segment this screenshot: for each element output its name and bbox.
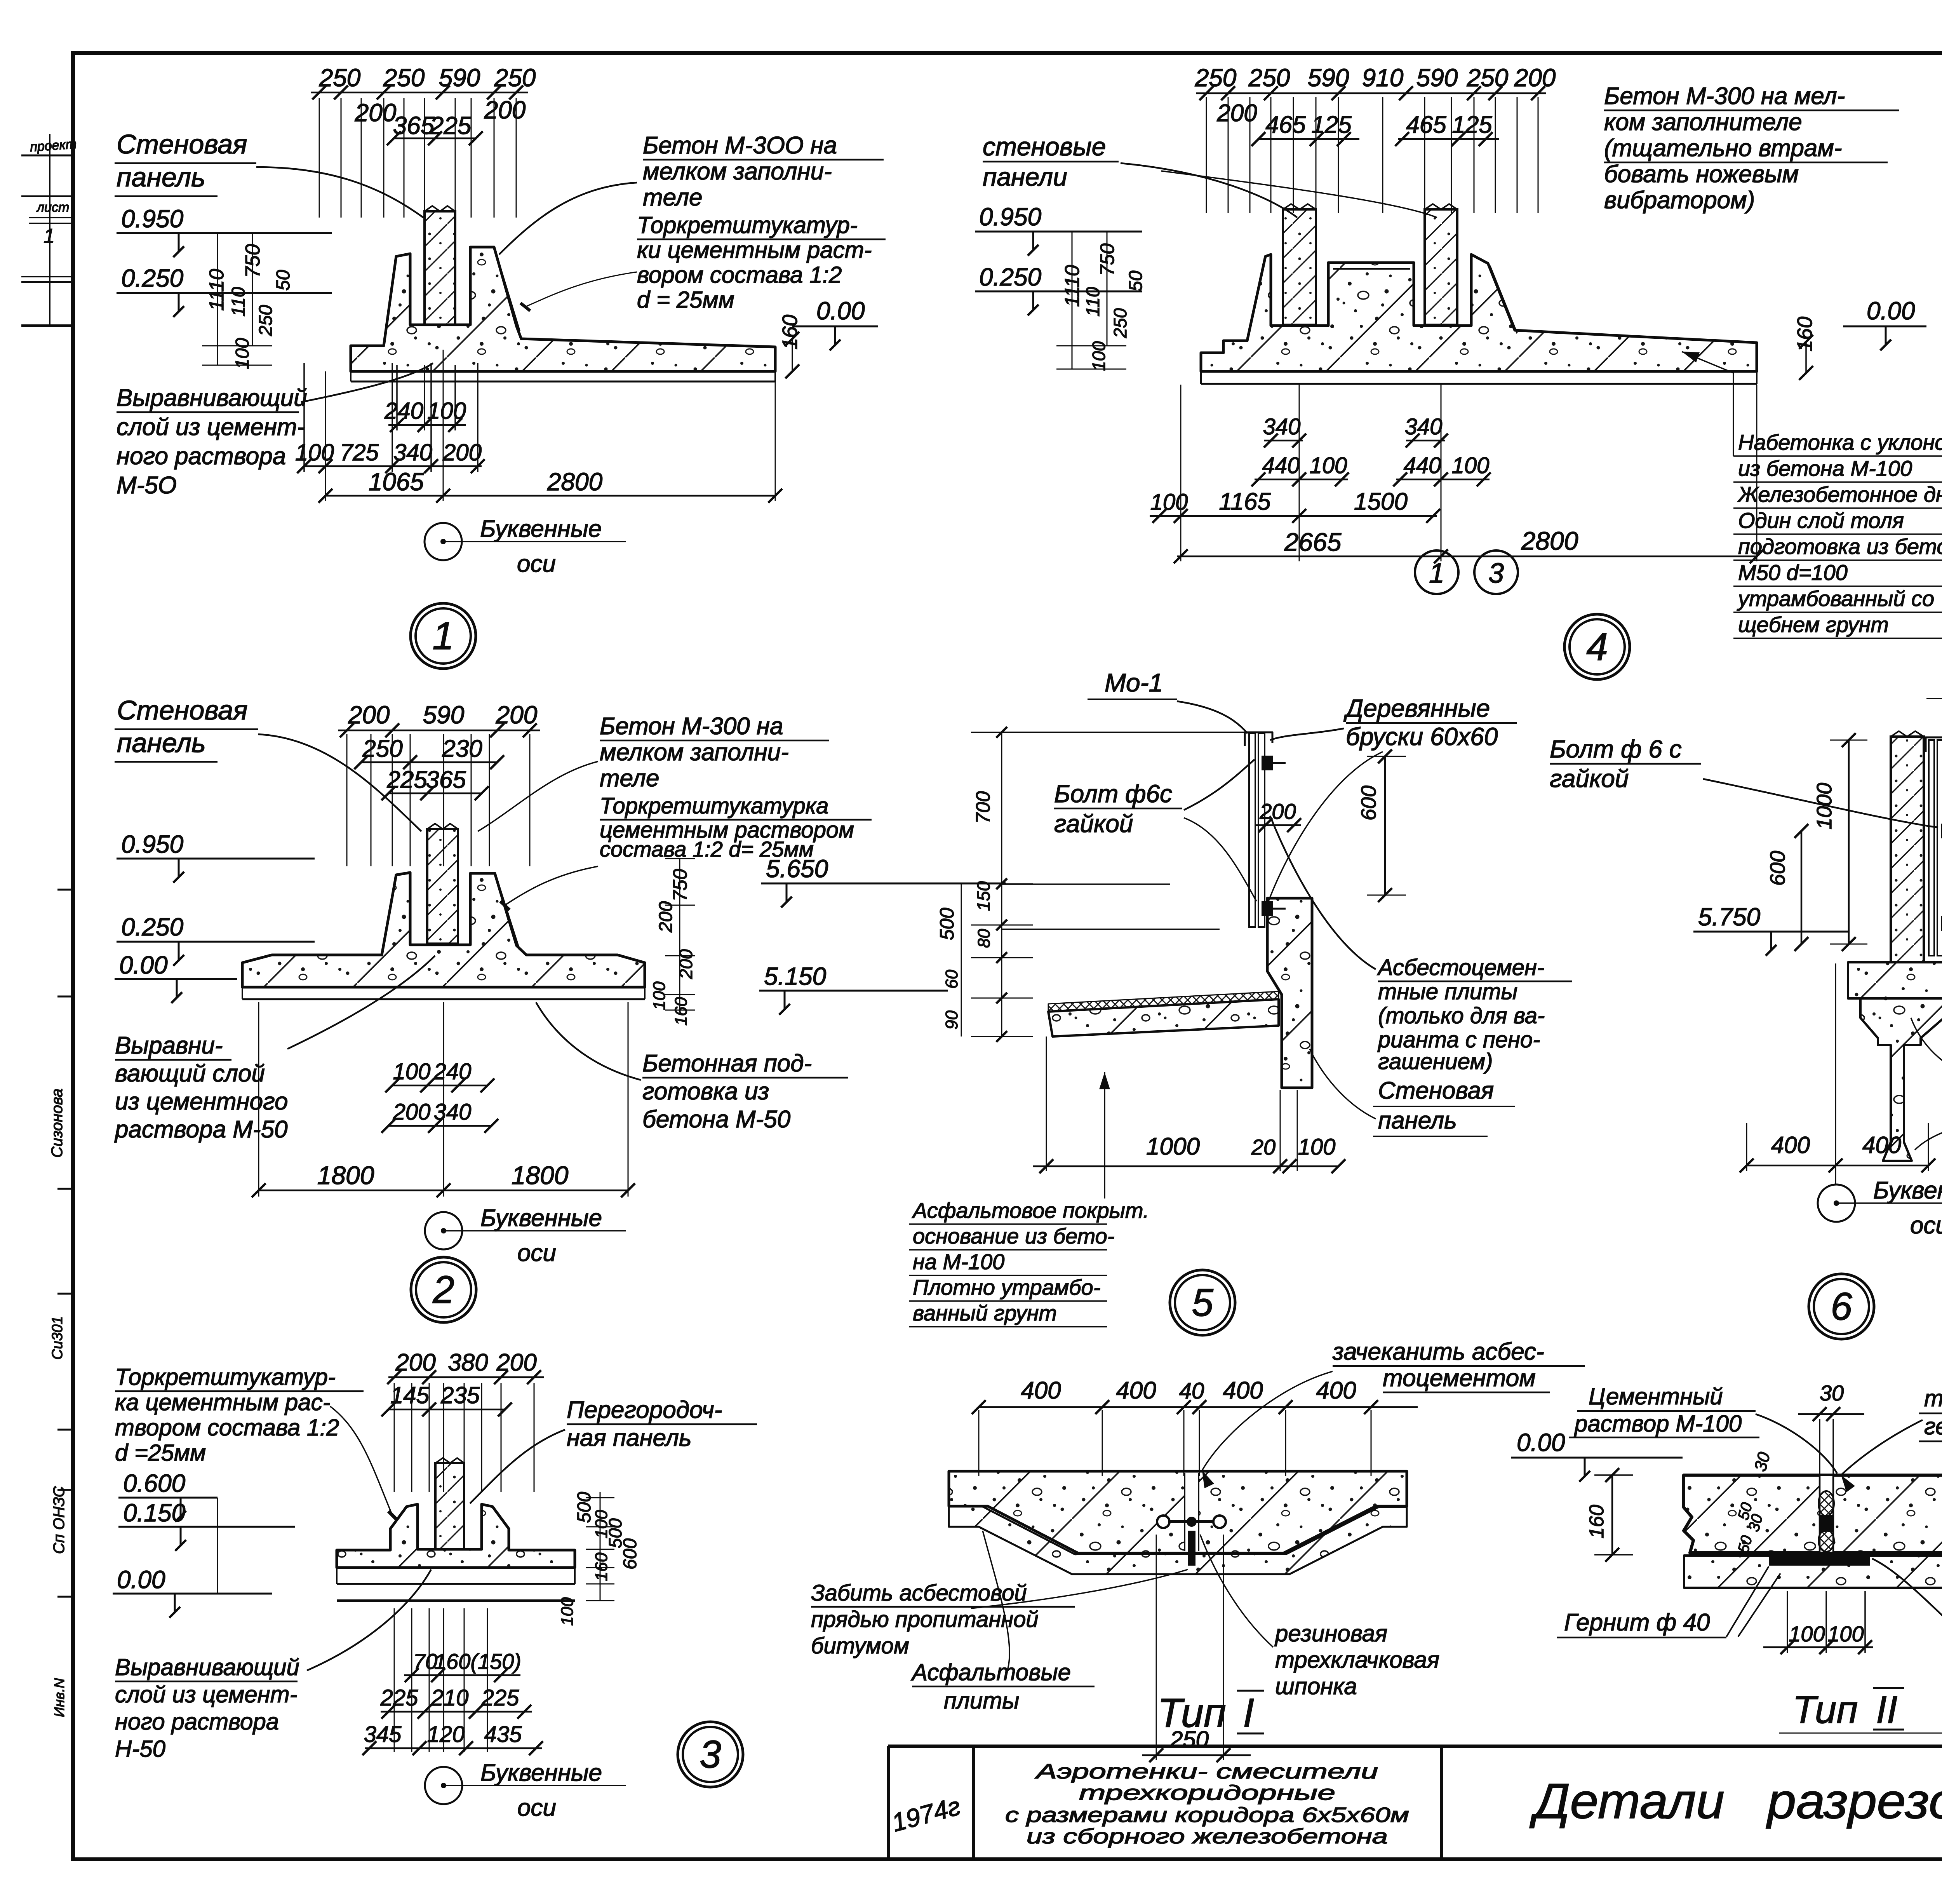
svg-text:Торкретштукатур-: Торкретштукатур-: [115, 1364, 336, 1390]
svg-text:твором состава 1:2: твором состава 1:2: [115, 1414, 339, 1441]
svg-text:600: 600: [1357, 786, 1380, 820]
svg-text:подготовка из бетона: подготовка из бетона: [1738, 534, 1942, 559]
svg-text:1800: 1800: [317, 1161, 374, 1190]
svg-text:панель: панель: [117, 162, 205, 192]
svg-text:910: 910: [1362, 64, 1404, 92]
svg-text:200: 200: [656, 901, 676, 933]
svg-text:120: 120: [427, 1722, 465, 1747]
svg-text:Бетонная под-: Бетонная под-: [642, 1050, 812, 1077]
svg-text:0.150: 0.150: [123, 1499, 186, 1527]
svg-text:1110: 1110: [1061, 265, 1084, 307]
svg-text:145: 145: [390, 1382, 430, 1408]
svg-text:250: 250: [362, 735, 402, 762]
svg-text:125: 125: [1311, 111, 1352, 138]
svg-text:465: 465: [1265, 111, 1306, 138]
svg-text:Буквенные: Буквенные: [1873, 1177, 1942, 1204]
svg-text:3: 3: [1488, 558, 1504, 589]
svg-text:100: 100: [1150, 490, 1188, 515]
svg-text:240: 240: [433, 1059, 472, 1084]
svg-text:с размерами коридора 6х5х60м: с размерами коридора 6х5х60м: [1005, 1803, 1409, 1827]
svg-text:раствора М-50: раствора М-50: [114, 1116, 288, 1143]
svg-text:Буквенные: Буквенные: [480, 516, 602, 542]
svg-text:50: 50: [1126, 270, 1146, 291]
svg-text:1: 1: [1429, 558, 1444, 589]
svg-text:150: 150: [973, 881, 994, 911]
svg-text:250: 250: [494, 64, 536, 92]
svg-text:гашением): гашением): [1378, 1049, 1493, 1074]
svg-text:50: 50: [273, 270, 294, 291]
svg-text:гайкой: гайкой: [1550, 765, 1629, 793]
svg-text:Асбестоцемен-: Асбестоцемен-: [1377, 955, 1544, 980]
svg-text:d =25мм: d =25мм: [115, 1440, 206, 1466]
svg-text:Буквенные: Буквенные: [480, 1205, 602, 1232]
svg-text:1000: 1000: [1146, 1133, 1200, 1160]
svg-text:340: 340: [1263, 414, 1301, 439]
svg-text:2: 2: [432, 1268, 454, 1312]
svg-text:750: 750: [669, 869, 691, 901]
svg-text:0.950: 0.950: [979, 203, 1042, 231]
svg-text:200: 200: [355, 99, 397, 127]
svg-text:200: 200: [395, 1349, 435, 1376]
svg-text:160: 160: [592, 1552, 611, 1581]
svg-text:590: 590: [423, 701, 465, 729]
svg-text:700: 700: [972, 791, 994, 824]
svg-text:герметик „Гидром2“: герметик „Гидром2“: [1924, 1413, 1942, 1439]
svg-text:Стеновая: Стеновая: [117, 695, 248, 725]
svg-text:0.00: 0.00: [117, 1566, 165, 1594]
svg-text:5: 5: [1192, 1281, 1213, 1324]
svg-text:Стеновая: Стеновая: [117, 129, 247, 159]
svg-text:725: 725: [340, 439, 379, 465]
svg-text:20: 20: [1251, 1135, 1276, 1159]
svg-text:Асфальтовое покрыт.: Асфальтовое покрыт.: [912, 1198, 1149, 1223]
svg-text:2665: 2665: [1284, 528, 1342, 556]
svg-text:Асфальтовые: Асфальтовые: [911, 1659, 1071, 1685]
svg-text:1000: 1000: [1813, 783, 1836, 829]
svg-text:235: 235: [440, 1382, 480, 1408]
svg-text:0.250: 0.250: [979, 263, 1042, 291]
svg-text:200: 200: [676, 949, 696, 979]
svg-text:ка цементным рас-: ка цементным рас-: [115, 1389, 331, 1415]
svg-text:0.00: 0.00: [1517, 1428, 1565, 1456]
svg-text:Н-50: Н-50: [115, 1736, 165, 1762]
svg-text:100: 100: [650, 981, 669, 1010]
svg-text:Детали: Детали: [1530, 1773, 1724, 1829]
svg-text:125: 125: [1452, 111, 1492, 138]
svg-text:0.00: 0.00: [1867, 297, 1915, 325]
svg-text:60: 60: [942, 970, 961, 989]
svg-text:Плотно утрамбо-: Плотно утрамбо-: [913, 1275, 1100, 1300]
svg-text:d = 25мм: d = 25мм: [637, 287, 734, 313]
svg-text:Перегородоч-: Перегородоч-: [567, 1397, 722, 1423]
svg-text:щебнем грунт: щебнем грунт: [1738, 612, 1889, 637]
svg-text:250: 250: [1248, 64, 1290, 92]
svg-text:3: 3: [700, 1733, 721, 1776]
svg-text:из бетона М-100: из бетона М-100: [1738, 456, 1912, 481]
svg-text:вором состава 1:2: вором состава 1:2: [637, 262, 842, 288]
svg-text:Забить асбестовой: Забить асбестовой: [811, 1580, 1027, 1606]
svg-text:1974г: 1974г: [889, 1791, 963, 1837]
svg-text:100: 100: [1789, 1622, 1825, 1646]
svg-text:вибратором): вибратором): [1604, 187, 1755, 214]
svg-text:100: 100: [232, 338, 253, 369]
svg-text:резиновая: резиновая: [1274, 1620, 1387, 1646]
svg-text:теле: теле: [643, 184, 703, 211]
svg-text:ванный грунт: ванный грунт: [913, 1301, 1057, 1325]
svg-text:500: 500: [936, 908, 958, 940]
svg-text:100: 100: [1827, 1622, 1864, 1646]
svg-text:750: 750: [1096, 243, 1118, 276]
svg-text:Торкретштукатур-: Торкретштукатур-: [637, 212, 858, 238]
svg-text:100: 100: [1089, 341, 1109, 371]
svg-text:200: 200: [1216, 100, 1257, 127]
svg-text:250: 250: [1110, 308, 1130, 338]
svg-text:200: 200: [484, 96, 526, 124]
svg-text:оси: оси: [517, 1794, 556, 1821]
svg-text:440: 440: [1262, 453, 1300, 478]
svg-text:разрезов: разрезов: [1766, 1773, 1942, 1829]
svg-text:тные плиты: тные плиты: [1378, 979, 1517, 1004]
svg-text:400: 400: [1223, 1377, 1263, 1404]
svg-text:440: 440: [1404, 453, 1441, 478]
svg-text:100: 100: [1452, 453, 1490, 478]
svg-text:400: 400: [1862, 1132, 1901, 1158]
svg-text:(только для ва-: (только для ва-: [1378, 1003, 1545, 1028]
svg-text:200: 200: [393, 1099, 431, 1125]
svg-text:трехклачковая: трехклачковая: [1275, 1647, 1439, 1673]
svg-text:проект: проект: [30, 137, 77, 155]
svg-text:Выравнивающий: Выравнивающий: [115, 1654, 299, 1680]
svg-text:(тщательно втрам-: (тщательно втрам-: [1604, 135, 1842, 162]
svg-text:590: 590: [439, 64, 480, 92]
svg-text:400: 400: [1116, 1377, 1156, 1404]
svg-text:II: II: [1876, 1688, 1898, 1732]
svg-text:100: 100: [1298, 1134, 1336, 1160]
svg-text:слой из цемент-: слой из цемент-: [115, 1681, 298, 1707]
svg-text:225: 225: [430, 111, 472, 139]
svg-text:250: 250: [1195, 64, 1237, 92]
svg-text:зачеканить асбес-: зачеканить асбес-: [1332, 1338, 1544, 1365]
svg-text:шпонка: шпонка: [1275, 1673, 1357, 1699]
svg-text:200: 200: [348, 701, 390, 729]
svg-text:100: 100: [558, 1597, 577, 1626]
svg-text:200: 200: [1514, 64, 1556, 92]
svg-text:0.00: 0.00: [816, 297, 865, 325]
svg-text:оси: оси: [517, 550, 556, 577]
svg-text:Бетон М-300 на мел-: Бетон М-300 на мел-: [1604, 83, 1845, 110]
svg-text:готовка из: готовка из: [642, 1078, 769, 1105]
svg-text:750: 750: [242, 244, 264, 278]
svg-text:200: 200: [496, 701, 538, 729]
svg-text:465: 465: [1406, 111, 1446, 138]
svg-text:90: 90: [942, 1010, 961, 1030]
svg-text:1110: 1110: [205, 269, 228, 311]
svg-text:Си301: Си301: [49, 1316, 66, 1360]
svg-text:200: 200: [442, 439, 482, 465]
svg-text:ная панель: ная панель: [567, 1425, 692, 1451]
svg-text:110: 110: [228, 287, 249, 317]
svg-text:Цементный: Цементный: [1589, 1383, 1723, 1409]
svg-text:225: 225: [380, 1685, 419, 1711]
svg-text:гайкой: гайкой: [1054, 810, 1133, 838]
svg-text:250: 250: [256, 305, 276, 336]
svg-text:0.950: 0.950: [121, 830, 184, 858]
svg-text:оси: оси: [517, 1240, 556, 1266]
svg-text:Аэротенки- смесители: Аэротенки- смесители: [1035, 1760, 1378, 1783]
svg-text:ки цементным раст-: ки цементным раст-: [637, 237, 872, 263]
svg-text:160(150): 160(150): [434, 1649, 521, 1674]
svg-text:Набетонка с уклоном: Набетонка с уклоном: [1738, 430, 1942, 455]
svg-text:365: 365: [393, 111, 435, 139]
svg-text:Стеновая: Стеновая: [1378, 1077, 1494, 1104]
svg-text:раствор М-100: раствор М-100: [1574, 1411, 1742, 1437]
svg-text:400: 400: [1316, 1377, 1356, 1404]
svg-text:230: 230: [442, 735, 482, 762]
svg-text:I: I: [1243, 1690, 1254, 1736]
svg-text:стеновые: стеновые: [983, 132, 1106, 161]
svg-text:5.750: 5.750: [1698, 903, 1761, 931]
svg-text:1165: 1165: [1219, 488, 1271, 515]
svg-text:лист: лист: [36, 200, 69, 215]
svg-text:Торкретштукатурка: Торкретштукатурка: [600, 793, 828, 819]
svg-text:Тип: Тип: [1157, 1690, 1226, 1736]
svg-text:200: 200: [496, 1349, 536, 1376]
svg-text:вающий слой: вающий слой: [115, 1060, 265, 1087]
svg-text:Железобетонное днище d-160: Железобетонное днище d-160: [1737, 482, 1942, 507]
svg-text:0.950: 0.950: [121, 205, 184, 233]
svg-text:340: 340: [393, 439, 432, 465]
svg-text:1500: 1500: [1354, 488, 1408, 515]
svg-text:битумом: битумом: [811, 1633, 909, 1658]
svg-text:основание из бето-: основание из бето-: [913, 1224, 1114, 1248]
svg-text:160: 160: [672, 997, 691, 1026]
svg-text:400: 400: [1771, 1132, 1810, 1158]
svg-text:Сизонова: Сизонова: [49, 1089, 66, 1158]
svg-text:бетона М-50: бетона М-50: [642, 1106, 790, 1133]
svg-text:на М-100: на М-100: [913, 1249, 1004, 1274]
svg-text:Мо-1: Мо-1: [1105, 668, 1163, 697]
svg-text:плиты: плиты: [944, 1688, 1019, 1714]
svg-text:ком заполнителе: ком заполнителе: [1604, 109, 1802, 136]
svg-text:600: 600: [1766, 851, 1789, 886]
svg-text:0.250: 0.250: [121, 913, 184, 941]
svg-text:600: 600: [620, 1538, 640, 1570]
svg-text:слой из цемент-: слой из цемент-: [117, 414, 305, 441]
svg-text:5.150: 5.150: [764, 962, 827, 990]
svg-text:оси: оси: [1910, 1212, 1942, 1239]
svg-text:0.250: 0.250: [121, 264, 184, 292]
svg-text:Гернит ф 40: Гернит ф 40: [1564, 1609, 1710, 1636]
svg-text:Бетон М-300 на: Бетон М-300 на: [600, 713, 783, 740]
svg-text:0.00: 0.00: [119, 951, 168, 979]
svg-text:345: 345: [364, 1722, 402, 1747]
svg-text:панель: панель: [117, 728, 206, 758]
svg-text:40: 40: [1179, 1378, 1204, 1404]
svg-text:из цементного: из цементного: [115, 1088, 288, 1115]
svg-text:бруски 60х60: бруски 60х60: [1346, 723, 1498, 751]
svg-text:340: 340: [1405, 414, 1443, 439]
svg-text:мелком заполни-: мелком заполни-: [600, 739, 789, 766]
svg-text:Выравнивающий: Выравнивающий: [117, 385, 307, 411]
svg-text:из сборного железобетона: из сборного железобетона: [1027, 1825, 1388, 1848]
svg-text:Выравни-: Выравни-: [115, 1032, 223, 1059]
svg-text:250: 250: [319, 64, 361, 92]
svg-text:панель: панель: [1378, 1107, 1457, 1134]
svg-text:трехкоридорные: трехкоридорные: [1079, 1781, 1335, 1805]
svg-text:утрамбованный со: утрамбованный со: [1737, 586, 1934, 611]
svg-text:6: 6: [1831, 1285, 1852, 1328]
svg-text:Бетон М-3ОО на: Бетон М-3ОО на: [643, 132, 837, 159]
svg-text:мелком заполни-: мелком заполни-: [643, 158, 832, 185]
svg-text:435: 435: [484, 1722, 522, 1747]
svg-text:2800: 2800: [547, 468, 603, 496]
svg-text:ного раствора: ного раствора: [117, 443, 286, 470]
svg-text:0.600: 0.600: [123, 1469, 186, 1497]
svg-text:4: 4: [1586, 625, 1608, 669]
svg-text:1800: 1800: [512, 1161, 569, 1190]
svg-text:380: 380: [448, 1349, 488, 1376]
svg-text:2800: 2800: [1521, 526, 1578, 555]
svg-text:Тип: Тип: [1792, 1688, 1858, 1732]
svg-text:100: 100: [1310, 453, 1347, 478]
svg-text:160: 160: [1585, 1505, 1608, 1538]
svg-text:30: 30: [1820, 1381, 1844, 1405]
svg-text:панели: панели: [983, 162, 1067, 191]
svg-text:240: 240: [384, 398, 423, 424]
svg-text:1065: 1065: [369, 468, 424, 496]
svg-text:бовать ножевым: бовать ножевым: [1604, 161, 1799, 188]
svg-text:250: 250: [383, 64, 425, 92]
svg-text:М50 d=100: М50 d=100: [1738, 560, 1848, 585]
svg-text:200: 200: [1259, 799, 1296, 824]
svg-text:теле: теле: [600, 765, 660, 792]
svg-text:Буквенные: Буквенные: [480, 1759, 602, 1786]
svg-text:Инв.N: Инв.N: [51, 1678, 67, 1717]
svg-text:250: 250: [1467, 64, 1509, 92]
svg-text:ного раствора: ного раствора: [115, 1709, 279, 1735]
svg-text:590: 590: [1308, 64, 1349, 92]
svg-text:Деревянные: Деревянные: [1343, 694, 1490, 722]
svg-text:160: 160: [1793, 317, 1817, 352]
svg-text:100: 100: [295, 439, 334, 465]
svg-text:80: 80: [974, 929, 994, 948]
svg-text:Сп ОНЗС: Сп ОНЗС: [50, 1486, 68, 1554]
svg-text:210: 210: [431, 1685, 469, 1711]
svg-text:Болт ф 6 с: Болт ф 6 с: [1550, 735, 1682, 763]
svg-text:1: 1: [432, 614, 454, 658]
svg-text:5.650: 5.650: [766, 855, 828, 883]
svg-text:110: 110: [1083, 287, 1103, 317]
svg-text:тиокаловый: тиокаловый: [1924, 1385, 1942, 1411]
svg-text:400: 400: [1021, 1377, 1061, 1404]
svg-text:30: 30: [1751, 1450, 1774, 1473]
svg-text:Болт ф6с: Болт ф6с: [1054, 780, 1172, 808]
svg-text:225: 225: [481, 1685, 520, 1711]
svg-text:тоцементом: тоцементом: [1383, 1365, 1536, 1392]
svg-text:Один слой толя: Один слой толя: [1738, 508, 1904, 533]
svg-text:590: 590: [1416, 64, 1458, 92]
svg-text:М-5О: М-5О: [117, 472, 177, 499]
